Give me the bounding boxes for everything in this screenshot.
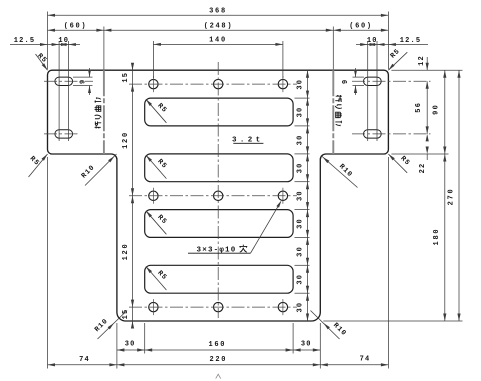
dim col 12-56-22 <box>415 55 429 173</box>
ext step right <box>391 153 448 155</box>
svg-text:120: 120 <box>122 243 130 261</box>
ext hole col1 up <box>152 41 154 78</box>
label R10 bottom-right <box>311 311 348 340</box>
dim col left 15-120-120-15 <box>122 63 134 329</box>
label R5 top-right <box>388 47 407 70</box>
ext slot edge right <box>295 264 310 266</box>
svg-text:120: 120 <box>122 131 130 149</box>
svg-text:90: 90 <box>433 104 441 115</box>
svg-text:270: 270 <box>448 188 456 206</box>
svg-text:30: 30 <box>296 162 304 173</box>
ext right edge up <box>387 12 389 70</box>
hole H21 <box>149 191 158 200</box>
svg-text:30: 30 <box>296 190 304 201</box>
slot S1 <box>145 98 293 126</box>
right tab slot upper <box>364 77 382 85</box>
text orimage right (vertical) <box>335 95 342 126</box>
svg-text:30: 30 <box>296 274 304 285</box>
label R10 step-left <box>80 154 116 186</box>
part outline <box>48 70 389 321</box>
right tab slot2 centerline <box>352 133 431 135</box>
ext slot edge right <box>295 181 310 183</box>
dim 74-220-74 <box>48 355 389 366</box>
right tab slot1 centerline <box>352 80 431 82</box>
svg-text:R10: R10 <box>80 164 97 181</box>
dim 90-180 <box>433 70 447 321</box>
dim 9 right <box>342 68 357 95</box>
ext left edge down <box>47 157 49 369</box>
ext left tab arc1 <box>58 41 60 141</box>
ext bottom right <box>323 320 462 322</box>
ext top edge right <box>391 69 462 71</box>
note 3.2t <box>232 137 264 145</box>
label R5 wing-bottom-right <box>388 154 411 173</box>
dim 270 <box>448 70 461 321</box>
row2 centerline <box>129 195 297 197</box>
hole H11 <box>149 79 158 88</box>
dim chain 30x9 <box>296 70 309 321</box>
svg-text:12: 12 <box>418 55 426 66</box>
svg-text:30: 30 <box>296 302 304 313</box>
ext left tab 9 bot <box>73 85 93 87</box>
ext slot edge right <box>295 236 310 238</box>
ext right tab arc2 <box>367 41 369 141</box>
svg-text:(60): (60) <box>64 22 88 30</box>
svg-text:220: 220 <box>209 356 227 364</box>
svg-text:12.5: 12.5 <box>400 37 422 45</box>
ext left fold up <box>103 27 105 70</box>
note 3x3-phi10-hole <box>188 200 282 254</box>
svg-text:30: 30 <box>296 134 304 145</box>
left tab slot2 centerline <box>44 133 80 135</box>
dim 9 left <box>79 68 91 95</box>
dim 368 <box>48 8 389 17</box>
label R10 bottom-left <box>93 311 127 340</box>
left tab slot lower <box>55 130 73 138</box>
ext left edge up <box>47 12 49 70</box>
hole H33 <box>278 302 287 311</box>
kanji ana <box>239 245 247 253</box>
text orimage left (vertical) <box>95 97 102 128</box>
ext slot edge right <box>295 209 310 211</box>
label R5 slot S2 <box>146 155 169 179</box>
hole H22 <box>214 191 223 200</box>
svg-text:R5: R5 <box>28 155 41 168</box>
svg-text:30: 30 <box>125 341 136 349</box>
dim 140 <box>153 37 283 46</box>
hole center mark <box>152 188 154 204</box>
hole H23 <box>278 191 287 200</box>
slot S4 <box>145 265 293 293</box>
svg-text:15: 15 <box>122 72 130 83</box>
svg-text:22: 22 <box>419 163 427 174</box>
hole H31 <box>149 302 158 311</box>
ext narrow right down <box>319 323 321 369</box>
svg-text:30: 30 <box>296 107 304 118</box>
ext left tab arc2 <box>67 41 69 141</box>
hole center mark <box>282 299 284 315</box>
left tab slot1 centerline <box>44 80 93 82</box>
svg-text:74: 74 <box>360 355 371 363</box>
label R10 step-right <box>321 156 358 188</box>
ext narrow left down <box>116 323 118 369</box>
slot S3 <box>145 210 293 238</box>
right fold line <box>332 70 334 154</box>
svg-text:180: 180 <box>433 228 441 246</box>
ext right tab 9 bot <box>353 85 365 87</box>
svg-text:30: 30 <box>301 341 312 349</box>
ext slot edge right <box>295 153 310 155</box>
svg-text:10: 10 <box>58 37 69 45</box>
svg-text:9: 9 <box>342 79 350 84</box>
ext slot left down <box>144 323 146 354</box>
svg-text:(60): (60) <box>349 22 373 30</box>
svg-text:30: 30 <box>296 218 304 229</box>
svg-text:368: 368 <box>209 8 227 16</box>
svg-text:R10: R10 <box>331 322 348 339</box>
hole center mark <box>152 299 154 315</box>
label R5 wing-bottom-left <box>28 154 48 177</box>
right tab slot lower <box>364 130 382 138</box>
hole H12 <box>214 79 223 88</box>
slot S2 <box>145 154 293 182</box>
hole center mark <box>282 76 284 92</box>
row1 centerline <box>129 83 297 85</box>
label R5 slot S1 <box>146 99 169 123</box>
svg-text:R10: R10 <box>93 317 110 334</box>
svg-text:74: 74 <box>79 356 90 364</box>
svg-text:(248): (248) <box>204 22 234 30</box>
ext slot right down <box>292 323 294 354</box>
svg-text:30: 30 <box>296 246 304 257</box>
ext right edge down <box>387 157 389 369</box>
svg-text:R5: R5 <box>35 52 48 65</box>
hole H13 <box>278 79 287 88</box>
svg-text:160: 160 <box>208 341 226 349</box>
dim 60-248-60 <box>48 22 389 31</box>
svg-text:9: 9 <box>79 79 87 84</box>
ext right tab 9 top <box>353 76 365 78</box>
label R5 slot S3 <box>146 211 169 235</box>
svg-text:140: 140 <box>209 37 227 45</box>
ext hole col3 up <box>282 41 284 78</box>
left fold line <box>103 70 105 154</box>
ext right fold up <box>332 27 334 70</box>
ext left tab 9 top <box>73 76 93 78</box>
col2 centerline <box>217 62 219 318</box>
label R5 slot S4 <box>146 267 169 291</box>
svg-text:10: 10 <box>367 37 378 45</box>
row3 centerline <box>129 306 297 308</box>
hole center mark <box>282 188 284 204</box>
left tab slot upper <box>55 77 73 85</box>
dim 10-12.5 right <box>356 37 428 46</box>
label R5 top-left <box>35 52 48 70</box>
svg-text:56: 56 <box>415 102 423 113</box>
ext slot edge right <box>295 125 310 127</box>
bottom center mark <box>216 374 221 378</box>
svg-text:30: 30 <box>296 79 304 90</box>
hole H32 <box>214 302 223 311</box>
svg-text:12.5: 12.5 <box>14 37 36 45</box>
ext slot edge right <box>295 292 310 294</box>
dim 30-160-30 <box>117 341 320 352</box>
ext slot edge right <box>295 97 310 99</box>
ext right tab arc1 <box>376 41 378 141</box>
hole center mark <box>152 76 154 92</box>
dim 12.5-10 left <box>10 37 80 46</box>
